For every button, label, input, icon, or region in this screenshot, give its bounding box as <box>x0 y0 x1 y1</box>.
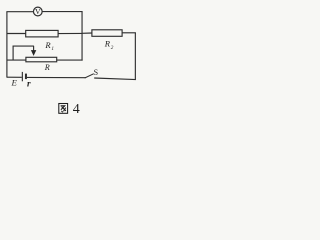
wire slider tap horizontal <box>13 45 34 47</box>
slider arrowhead onto R <box>31 50 36 56</box>
wire mid row left: node on left vertical to R1 <box>7 33 26 35</box>
svg-text:R: R <box>104 39 111 49</box>
svg-text:1: 1 <box>51 46 54 52</box>
wire vertical branch x=82 from top wire down to R row <box>81 12 83 61</box>
svg-text:r: r <box>27 79 31 89</box>
svg-text:S: S <box>94 68 98 77</box>
wire left vertical <box>6 12 8 78</box>
wire R box to vertical branch <box>57 59 83 61</box>
svg-text:R: R <box>44 63 50 72</box>
label CJK tu (figure) drawn as strokes <box>59 104 68 114</box>
voltmeter U1 circle <box>33 7 42 16</box>
wire bottom left to battery <box>7 76 22 78</box>
wire R2 to right corner <box>122 32 136 34</box>
resistor R box (rheostat body) <box>26 57 57 62</box>
switch S lever <box>85 74 94 78</box>
resistor R2 box <box>92 30 122 37</box>
node junction at x=82 continuing to R2 <box>82 32 92 34</box>
wire voltmeter to top-right corner <box>42 11 82 13</box>
wire slider tap vertical from R row up <box>12 46 14 61</box>
wire switch to bottom-right corner <box>94 78 136 80</box>
wire right vertical <box>134 33 136 80</box>
wire battery to switch <box>27 76 86 78</box>
svg-text:R: R <box>44 40 51 50</box>
wire R1 to junction node <box>58 32 82 34</box>
wire top left to voltmeter <box>6 11 33 13</box>
resistor R1 box <box>26 30 58 37</box>
wire slider arrow shaft <box>33 46 35 51</box>
svg-text:4: 4 <box>73 102 80 117</box>
svg-text:V: V <box>35 7 41 16</box>
svg-text:E: E <box>11 78 18 88</box>
battery E long plate <box>21 72 23 81</box>
wire R row left: left vertical to R box <box>7 59 26 61</box>
battery E short thick plate <box>25 74 27 80</box>
svg-text:2: 2 <box>111 45 114 51</box>
